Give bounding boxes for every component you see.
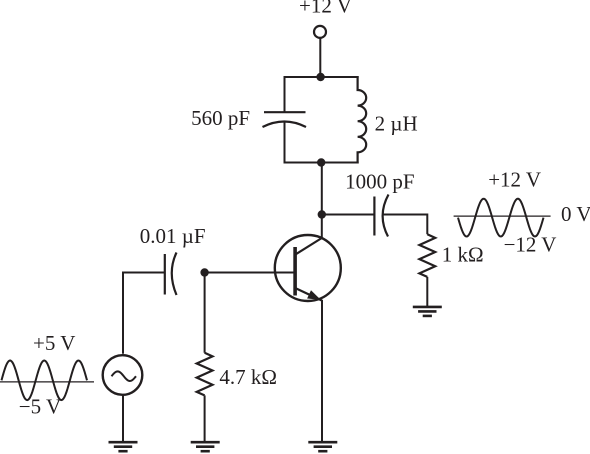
wire emitter to ground	[321, 300, 323, 442]
svg-text:−5 V: −5 V	[19, 395, 61, 419]
svg-text:0 V: 0 V	[561, 202, 590, 226]
svg-text:1000 pF: 1000 pF	[345, 169, 414, 193]
svg-text:1 kΩ: 1 kΩ	[442, 243, 484, 267]
source V1	[103, 355, 143, 395]
inductor L1 2 uH	[358, 76, 367, 164]
node base junction	[200, 268, 208, 276]
svg-text:+12 V: +12 V	[488, 168, 541, 192]
resistor R2 4.7 kOhm	[197, 353, 213, 396]
ground source	[109, 441, 138, 444]
svg-text:2 µH: 2 µH	[375, 111, 418, 135]
ground bias	[191, 441, 220, 444]
wire junction to C2	[322, 214, 375, 216]
wire R2 to ground	[204, 395, 206, 442]
wire source to ground	[122, 395, 124, 442]
output waveform sine	[458, 199, 544, 237]
svg-text:−12 V: −12 V	[504, 233, 557, 257]
wire tank left upper	[284, 76, 286, 113]
node tank bottom junction	[317, 158, 325, 166]
resistor R1 1 kOhm	[419, 234, 435, 277]
svg-text:4.7 kΩ: 4.7 kΩ	[219, 365, 277, 389]
svg-text:+5 V: +5 V	[33, 331, 75, 355]
wire base junction to R2	[204, 273, 206, 353]
input waveform sine	[2, 361, 88, 401]
output waveform axis	[454, 215, 551, 217]
wire supply to tank top	[319, 38, 321, 77]
wire R1 to ground	[426, 277, 428, 307]
input waveform axis	[0, 381, 94, 383]
capacitor C3 0.01 uF	[165, 253, 177, 296]
node tank top junction	[316, 73, 324, 81]
terminal +12 V	[314, 26, 326, 38]
node output branch junction	[318, 210, 326, 218]
wire tank bottom to collector	[321, 163, 323, 239]
wire tank bottom	[284, 162, 359, 164]
wire base	[205, 272, 295, 274]
wire tank top	[284, 76, 359, 78]
ground emitter	[308, 441, 337, 444]
svg-text:+12 V: +12 V	[299, 0, 352, 18]
transistor Q1	[275, 235, 341, 301]
ground output	[413, 306, 442, 309]
capacitor C2 1000 pF	[374, 195, 388, 237]
wire C3 left to source	[123, 273, 165, 354]
wire tank left lower	[284, 122, 286, 164]
svg-text:0.01 µF: 0.01 µF	[140, 224, 206, 248]
svg-text:560 pF: 560 pF	[191, 106, 250, 130]
wire C2 to R1 corner	[384, 215, 428, 235]
capacitor C1 560 pF	[263, 112, 307, 127]
